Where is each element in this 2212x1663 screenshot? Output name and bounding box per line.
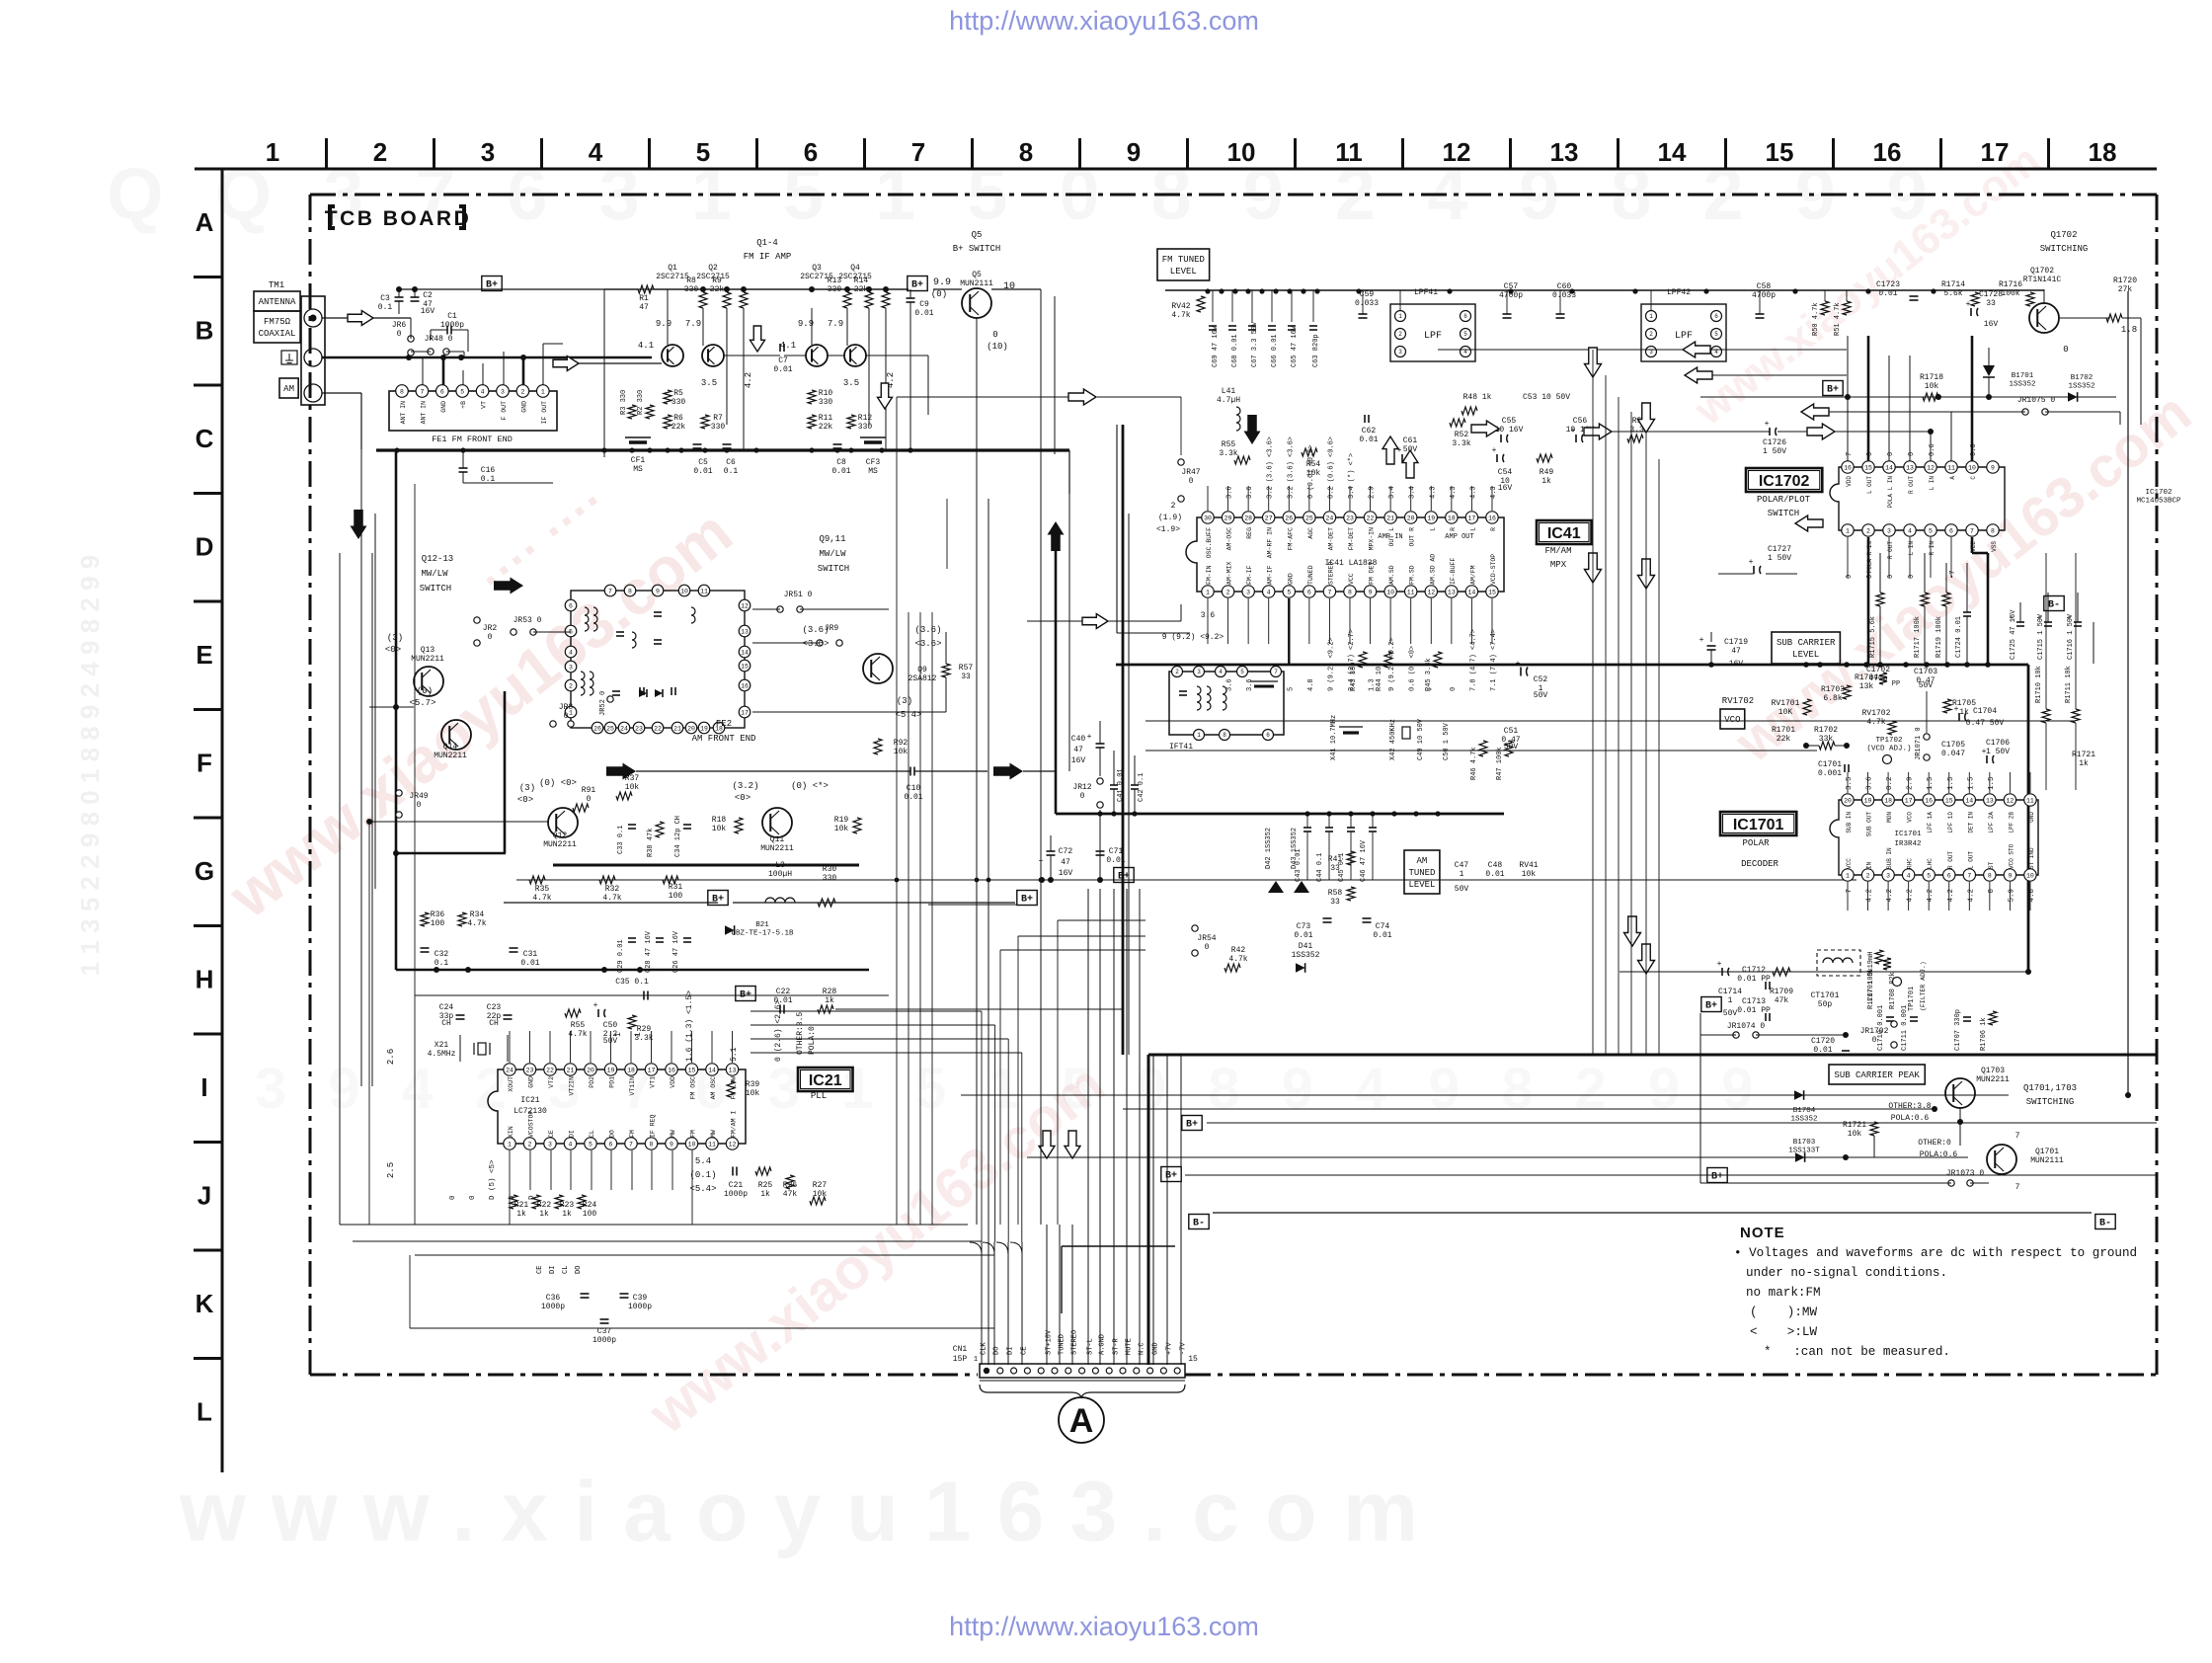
TCB BOARD dash-dot border: [310, 194, 2157, 197]
svg-text:17: 17: [648, 1067, 656, 1073]
svg-text:(VCD ADJ.): (VCD ADJ.): [1866, 746, 1911, 753]
svg-text:0.2 (0.6) <0.6>: 0.2 (0.6) <0.6>: [1327, 436, 1335, 499]
svg-text:L41: L41: [1222, 387, 1236, 396]
svg-text:GND: GND: [1287, 573, 1294, 585]
svg-text:2.6: 2.6: [386, 1049, 396, 1065]
svg-text:2: 2: [569, 682, 573, 689]
wire stubs fm bus: [1212, 290, 1214, 322]
capacitor C1719: [1707, 645, 1716, 647]
svg-text:10: 10: [2026, 872, 2034, 879]
svg-text:27k: 27k: [2118, 285, 2133, 294]
svg-text:1.6 (1.3) <1.5>: 1.6 (1.3) <1.5>: [685, 990, 694, 1062]
svg-text:<5.7>: <5.7>: [409, 698, 435, 708]
svg-text:LPF42: LPF42: [1667, 288, 1691, 297]
svg-text:C1712: C1712: [1742, 966, 1766, 975]
svg-text:L: L: [197, 1397, 212, 1427]
svg-text:0: 0: [1866, 452, 1874, 456]
svg-text:C1726: C1726: [1763, 438, 1786, 447]
svg-text:14: 14: [741, 649, 749, 656]
svg-text:4.7k: 4.7k: [568, 1030, 587, 1039]
svg-text:ST-L: ST-L: [1087, 1338, 1095, 1355]
svg-text:MUN2211: MUN2211: [434, 752, 467, 760]
svg-text:50V: 50V: [1534, 691, 1548, 700]
svg-text:12: 12: [2006, 797, 2014, 804]
svg-text:MW/LW: MW/LW: [421, 569, 448, 579]
solid arrow up mid: [1048, 521, 1065, 551]
svg-text:13: 13: [1986, 797, 1994, 804]
B+ box jr1074: [1701, 997, 1721, 1012]
svg-text:3: 3: [1886, 872, 1890, 879]
svg-text:4.2: 4.2: [1927, 889, 1935, 903]
svg-text:I: I: [200, 1072, 207, 1102]
svg-text:10: 10: [1003, 281, 1015, 292]
svg-text:1000p: 1000p: [724, 1190, 748, 1199]
svg-text:LPF: LPF: [1675, 331, 1693, 342]
svg-text:6: 6: [1714, 313, 1718, 320]
svg-text:2: 2: [1649, 331, 1653, 338]
svg-text:9: 9: [1127, 137, 1141, 167]
svg-text:50V: 50V: [1919, 681, 1934, 690]
svg-text:( ):MW: ( ):MW: [1750, 1306, 1817, 1319]
svg-text:0.2: 0.2: [1886, 776, 1894, 790]
svg-text:0: 0: [1450, 687, 1458, 691]
svg-text:CLK: CLK: [981, 1342, 988, 1355]
IC41 boxed label: [1537, 520, 1592, 544]
svg-text:(0): (0): [931, 289, 947, 299]
wire h row: [415, 994, 644, 996]
svg-text:LPF: LPF: [1424, 331, 1442, 342]
svg-text:R9: R9: [712, 277, 722, 285]
svg-text:R14: R14: [854, 277, 869, 285]
svg-text:TP1701: TP1701: [1908, 987, 1916, 1011]
svg-text:17: 17: [1468, 515, 1476, 521]
svg-text:POLA:0: POLA:0: [808, 1026, 817, 1055]
wire pin17 to r57: [752, 711, 946, 713]
svg-text:IC1702: IC1702: [1759, 473, 1810, 490]
svg-text:C50 1 50V: C50 1 50V: [1443, 722, 1451, 760]
svg-text:4: 4: [1908, 527, 1912, 534]
svg-text:4.7k: 4.7k: [532, 894, 551, 903]
svg-text:JR49: JR49: [409, 792, 428, 801]
svg-text:R8: R8: [686, 277, 696, 285]
svg-text:2: 2: [1866, 527, 1870, 534]
wire y1198: [1700, 1182, 1951, 1184]
svg-text:1.8: 1.8: [2121, 325, 2137, 335]
svg-text:16V: 16V: [1059, 869, 1073, 878]
svg-text:C29 0.01: C29 0.01: [617, 939, 625, 973]
svg-text:AM-MIX: AM-MIX: [1226, 561, 1233, 585]
svg-text:4.8: 4.8: [2028, 889, 2036, 903]
svg-text:RV1702: RV1702: [1722, 696, 1754, 706]
svg-text:JR2: JR2: [483, 624, 498, 633]
svg-text:Q1701,1703: Q1701,1703: [2023, 1083, 2077, 1093]
svg-text:4.1: 4.1: [638, 341, 654, 351]
long wire y1190: [1185, 1174, 2157, 1176]
wire heavy rail y824: [1056, 813, 1504, 816]
svg-text:MS: MS: [868, 467, 878, 476]
svg-text:11: 11: [708, 1141, 716, 1148]
svg-text:3.3k: 3.3k: [634, 1034, 653, 1043]
svg-text:9: 9: [1369, 589, 1373, 595]
svg-text:R10: R10: [819, 389, 833, 398]
svg-text:A: A: [1069, 1402, 1094, 1440]
B- box note: [2095, 1215, 2115, 1229]
TCB BOARD title: [330, 206, 335, 228]
wire fe2 bottom heavy: [553, 864, 859, 867]
svg-text:VCO STO: VCO STO: [2008, 843, 2014, 869]
svg-text:8: 8: [650, 1141, 654, 1148]
svg-text:LEVEL: LEVEL: [1792, 650, 1819, 660]
svg-text:C48: C48: [1488, 861, 1503, 870]
svg-text:14: 14: [1965, 797, 1973, 804]
svg-text:POLAR/PLOT: POLAR/PLOT: [1757, 495, 1811, 505]
svg-text:ST IND: ST IND: [2028, 847, 2035, 869]
svg-text:2: 2: [528, 1141, 532, 1148]
svg-text:+: +: [1966, 300, 1971, 309]
svg-text:R42: R42: [1231, 946, 1246, 955]
svg-text:23: 23: [526, 1067, 534, 1073]
hollow arrow down1: [750, 326, 765, 352]
svg-text:Q13: Q13: [421, 646, 435, 655]
svg-text:8: 8: [1991, 527, 1995, 534]
FE2 internal coils: [585, 607, 589, 631]
svg-text:VT: VT: [481, 401, 488, 409]
svg-text:R45 3.3k: R45 3.3k: [1425, 658, 1433, 691]
svg-text:5.1: 5.1: [730, 1047, 739, 1062]
svg-text:VT1IN: VT1IN: [629, 1076, 636, 1096]
svg-text:3.6: 3.6: [1201, 611, 1216, 620]
svg-text:5: 5: [1927, 872, 1931, 879]
svg-text:AM FRONT END: AM FRONT END: [692, 734, 756, 744]
svg-text:0: 0: [1205, 943, 1210, 952]
wire horizontals left mid: [350, 318, 352, 344]
svg-text:LEVEL: LEVEL: [1408, 880, 1435, 890]
svg-text:R55: R55: [1222, 440, 1236, 449]
svg-text:RV41: RV41: [1519, 861, 1538, 870]
svg-text:9 (9.2) <9.2>: 9 (9.2) <9.2>: [1162, 633, 1224, 642]
ruler top line: [195, 168, 2157, 171]
svg-text:5: 5: [589, 1141, 592, 1148]
svg-text:6: 6: [1947, 872, 1951, 879]
svg-text:LPF 2B: LPF 2B: [2008, 812, 2014, 833]
svg-text:MPX: MPX: [1550, 560, 1567, 570]
svg-text:IC21: IC21: [809, 1072, 842, 1089]
svg-text:6: 6: [569, 602, 573, 609]
svg-text:MW/LW: MW/LW: [819, 549, 846, 559]
svg-text:2: 2: [373, 137, 387, 167]
svg-text:2.5: 2.5: [386, 1162, 396, 1178]
svg-text:5: 5: [1714, 331, 1718, 338]
IC21 body: [488, 1069, 746, 1144]
svg-text:R11: R11: [819, 414, 833, 423]
svg-text:0.6 (0) <0>: 0.6 (0) <0>: [1409, 646, 1417, 691]
solid arrow down left: [351, 510, 367, 539]
svg-text:C31: C31: [523, 950, 538, 959]
svg-text:15: 15: [1488, 589, 1496, 595]
AM box: [279, 378, 298, 398]
IC1702 body: [1830, 467, 2005, 530]
svg-text:C57: C57: [1504, 282, 1519, 291]
svg-text:4: 4: [481, 388, 485, 395]
svg-text:AM.SD: AM.SD: [1388, 565, 1395, 585]
svg-text:C1713: C1713: [1742, 997, 1766, 1006]
svg-text:1 1 3 5 2 2 9 8 0 1 8 8 9 2 4: 1 1 3 5 2 2 9 8 0 1 8 8 9 2 4 9 8 2 9 9: [75, 555, 105, 976]
svg-text:5.9: 5.9: [2008, 889, 2015, 903]
FE2 left pins: [565, 599, 577, 611]
svg-text:RHC: RHC: [1907, 858, 1914, 869]
svg-text:1SS352: 1SS352: [1790, 1116, 1817, 1124]
svg-text:C1724 0.01: C1724 0.01: [1955, 616, 1963, 658]
svg-text:C53 10 50V: C53 10 50V: [1523, 393, 1570, 402]
svg-text:(0): (0): [417, 686, 433, 696]
solid arrow down l41: [1244, 415, 1261, 444]
svg-text:R51 4.7k: R51 4.7k: [1834, 302, 1842, 336]
FM75 coaxial box: [254, 311, 300, 343]
svg-text:LPF41: LPF41: [1414, 288, 1438, 297]
IC41 body: [1186, 517, 1504, 592]
svg-text:C1705: C1705: [1941, 741, 1965, 750]
svg-text:FM: FM: [690, 1130, 697, 1138]
svg-text:1: 1: [541, 388, 545, 395]
svg-text:R1711 10k: R1711 10k: [2065, 666, 2073, 703]
svg-text:0: 0: [1189, 477, 1194, 486]
wire q5 base down: [976, 318, 978, 553]
svg-text:0: 0: [564, 712, 569, 721]
B- box bundle: [1189, 1215, 1209, 1229]
svg-text:+: +: [1982, 748, 1987, 756]
svg-text:FM-IF: FM-IF: [1246, 565, 1253, 585]
svg-text:B+: B+: [1165, 1171, 1177, 1182]
svg-text:0: 0: [1872, 1036, 1877, 1045]
svg-text:R19: R19: [834, 816, 849, 825]
wire y1137: [1207, 1122, 2157, 1124]
svg-text:(FILTER ADJ.): (FILTER ADJ.): [1920, 961, 1927, 1011]
L1701 dashed box: [1817, 950, 1860, 976]
svg-text:D42 1SS352: D42 1SS352: [1265, 828, 1273, 869]
svg-text:3.5: 3.5: [843, 378, 859, 388]
svg-text:JR47: JR47: [1181, 468, 1200, 477]
svg-text:100: 100: [431, 919, 445, 928]
svg-text:0.01: 0.01: [773, 365, 792, 374]
svg-text:R7: R7: [713, 414, 723, 423]
svg-text:13: 13: [741, 628, 749, 635]
svg-text:8: 8: [628, 588, 632, 594]
B+ box q5: [908, 277, 927, 291]
svg-text:JR48 0: JR48 0: [425, 335, 453, 344]
svg-text:16V: 16V: [1498, 484, 1513, 493]
svg-text:TCB BOARD: TCB BOARD: [325, 207, 472, 230]
svg-text:TUNED: TUNED: [1408, 868, 1435, 878]
svg-text:19: 19: [607, 1067, 615, 1073]
svg-text:MS: MS: [633, 465, 643, 474]
svg-text:16V: 16V: [1729, 660, 1744, 669]
svg-text:SWITCHING: SWITCHING: [2040, 244, 2089, 254]
svg-text:MUN2211: MUN2211: [411, 655, 444, 664]
svg-text:CF1: CF1: [631, 456, 646, 465]
svg-text:5: 5: [1929, 527, 1933, 534]
svg-text:OTHER:3.8: OTHER:3.8: [1888, 1102, 1931, 1111]
wire am jack down: [360, 393, 362, 449]
svg-text:R32: R32: [605, 885, 620, 894]
svg-text:FM-DET: FM-DET: [1348, 527, 1355, 551]
svg-text:4: 4: [569, 649, 573, 656]
svg-text:8: 8: [1988, 872, 1992, 879]
svg-text:1k: 1k: [2079, 759, 2089, 768]
svg-text:C1706: C1706: [1986, 739, 2010, 748]
svg-text:B-: B-: [1193, 1219, 1205, 1229]
svg-text:STEREO: STEREO: [1327, 561, 1334, 585]
svg-text:X42 450KHz: X42 450KHz: [1389, 719, 1397, 760]
svg-text:0: 0: [417, 801, 422, 810]
svg-text:(1.9): (1.9): [1158, 514, 1182, 522]
svg-text:1 50V: 1 50V: [1986, 748, 2010, 756]
svg-text:330: 330: [671, 398, 686, 407]
svg-text:3.4 (*) <*>: 3.4 (*) <*>: [1348, 453, 1356, 499]
svg-text:PD2: PD2: [589, 1076, 595, 1088]
svg-text:IC41: IC41: [1547, 525, 1581, 542]
svg-text:* :can not be measured.: * :can not be measured.: [1764, 1345, 1950, 1359]
svg-text:POLA L IN: POLA L IN: [1887, 476, 1894, 509]
svg-text:NOTE: NOTE: [1740, 1225, 1785, 1241]
svg-text:C1707 330p: C1707 330p: [1954, 1009, 1962, 1051]
svg-text:D41: D41: [1299, 942, 1313, 951]
svg-text:0: 0: [1908, 452, 1916, 456]
svg-text:L3: L3: [775, 861, 785, 870]
svg-text:50V: 50V: [1455, 885, 1469, 894]
wire verticals FE2 to bottom: [896, 397, 898, 1225]
hollow arrow IF path: [553, 356, 579, 371]
svg-text:33k: 33k: [1819, 735, 1834, 744]
solid arrow right c10: [993, 763, 1023, 780]
svg-text:• Voltages and waveforms are d: • Voltages and waveforms are dc with res…: [1734, 1246, 2137, 1260]
svg-text:ST: ST: [1988, 861, 1995, 869]
svg-text:OTHER:3.5: OTHER:3.5: [796, 1012, 805, 1055]
svg-text:C36: C36: [546, 1294, 561, 1303]
arrow antenna signal: [348, 311, 373, 326]
svg-text:C5: C5: [698, 458, 708, 467]
svg-text:LEVEL: LEVEL: [1170, 267, 1197, 277]
svg-text:CL: CL: [562, 1266, 570, 1274]
svg-text:B+: B+: [1705, 1001, 1717, 1012]
svg-text:19: 19: [1864, 797, 1872, 804]
svg-text:22k: 22k: [671, 423, 686, 432]
wire long horizontals right mid: [1145, 720, 2074, 722]
svg-text:ANT IN: ANT IN: [420, 401, 427, 425]
svg-text:B1703: B1703: [1793, 1139, 1816, 1147]
AM TUNED LEVEL box: [1404, 850, 1440, 894]
IC1701 pin stubs: [1847, 772, 1849, 793]
svg-text:18: 18: [627, 1067, 635, 1073]
svg-text:6: 6: [1307, 589, 1311, 595]
svg-text:L1701 5.19mH: L1701 5.19mH: [1867, 952, 1875, 1001]
svg-text:R48 1k: R48 1k: [1463, 393, 1492, 402]
svg-text:9: 9: [2008, 872, 2012, 879]
svg-text:FM IF AMP: FM IF AMP: [744, 252, 792, 262]
svg-text:7.9: 7.9: [685, 319, 701, 329]
svg-text:<0>: <0>: [385, 645, 401, 655]
FE2 right pins: [739, 599, 750, 611]
svg-text:11: 11: [2026, 797, 2034, 804]
svg-text:7: 7: [1970, 527, 1974, 534]
svg-text:OUT R: OUT R: [1409, 527, 1416, 547]
svg-text:-7V: -7V: [1180, 1342, 1188, 1355]
svg-text:0: 0: [587, 795, 592, 804]
svg-text:7.1 (7.4) <7.4>: 7.1 (7.4) <7.4>: [1490, 629, 1498, 691]
svg-text:33: 33: [1986, 299, 1996, 308]
long wire y1171: [1027, 1156, 1968, 1158]
svg-text:+: +: [2010, 614, 2014, 623]
svg-text:3.2 (3.6) <3.6>: 3.2 (3.6) <3.6>: [1267, 436, 1275, 499]
wire arrow 9 9.2 into IC41: [1027, 620, 1082, 622]
svg-text:MPX-IN: MPX-IN: [1369, 527, 1376, 551]
svg-text:0.01: 0.01: [520, 959, 539, 968]
svg-text:MW: MW: [670, 1130, 676, 1138]
svg-text:AM-DET: AM-DET: [1327, 527, 1334, 551]
B+ box lower right: [1707, 1168, 1727, 1183]
svg-text:7: 7: [608, 588, 612, 594]
svg-text:F OUT: F OUT: [501, 401, 508, 421]
wire y984 row: [1619, 971, 2028, 973]
long wire y1228 to B-: [1213, 1212, 2092, 1214]
hollow arrow left y417: [1801, 404, 1829, 420]
svg-text:4.3: 4.3: [1450, 486, 1458, 499]
svg-text:DI: DI: [549, 1266, 557, 1274]
svg-text:16V: 16V: [1071, 756, 1086, 765]
svg-text:JR1702: JR1702: [1860, 1027, 1889, 1036]
svg-text:3: 3: [548, 1141, 552, 1148]
svg-text:CF3: CF3: [866, 458, 881, 467]
svg-text:DECODER: DECODER: [1741, 859, 1778, 869]
svg-text:47: 47: [1073, 746, 1083, 754]
svg-text:<5.4>: <5.4>: [689, 1184, 716, 1194]
svg-text:22: 22: [654, 725, 662, 732]
svg-text:0: 0: [449, 1195, 457, 1200]
svg-text:FM75Ω: FM75Ω: [264, 317, 291, 327]
svg-text:4.3: 4.3: [1429, 486, 1437, 499]
svg-text:11: 11: [700, 588, 708, 594]
wire B- corner: [1061, 1246, 1063, 1313]
B+ box ic21: [736, 987, 755, 1001]
svg-text:http://www.xiaoyu163.com: http://www.xiaoyu163.com: [949, 1612, 1259, 1641]
svg-text:0: 0: [397, 330, 402, 339]
svg-text:2.9: 2.9: [1907, 776, 1915, 790]
svg-text:GND: GND: [520, 401, 527, 413]
svg-text:7: 7: [911, 137, 925, 167]
wire x374 vertical: [368, 822, 370, 1225]
svg-text:13: 13: [1550, 137, 1579, 167]
svg-text:(3.6): (3.6): [802, 625, 829, 635]
svg-text:0.1: 0.1: [434, 959, 449, 968]
svg-text:10k: 10k: [1925, 382, 1939, 391]
svg-text:7.9: 7.9: [828, 319, 843, 329]
svg-text:-7: -7: [1949, 571, 1957, 579]
svg-text:C6: C6: [726, 458, 736, 467]
svg-text:R1721: R1721: [2072, 751, 2095, 759]
svg-text:5: 5: [1240, 669, 1244, 675]
svg-text:R1709: R1709: [1770, 988, 1793, 996]
svg-text:FE2: FE2: [716, 719, 732, 729]
svg-text:JR12: JR12: [1072, 783, 1091, 792]
svg-text:B: B: [196, 316, 214, 346]
svg-text:DO: DO: [993, 1347, 1001, 1355]
svg-text:3: 3: [1398, 349, 1402, 356]
svg-text:C62: C62: [1362, 427, 1377, 436]
svg-text:VSS: VSS: [1991, 541, 1998, 552]
svg-text:VCOSTOP: VCOSTOP: [528, 1111, 535, 1138]
svg-text:R1720: R1720: [2113, 277, 2137, 285]
svg-text:3.4: 3.4: [1409, 486, 1417, 499]
IC1701 body: [1830, 800, 2038, 875]
